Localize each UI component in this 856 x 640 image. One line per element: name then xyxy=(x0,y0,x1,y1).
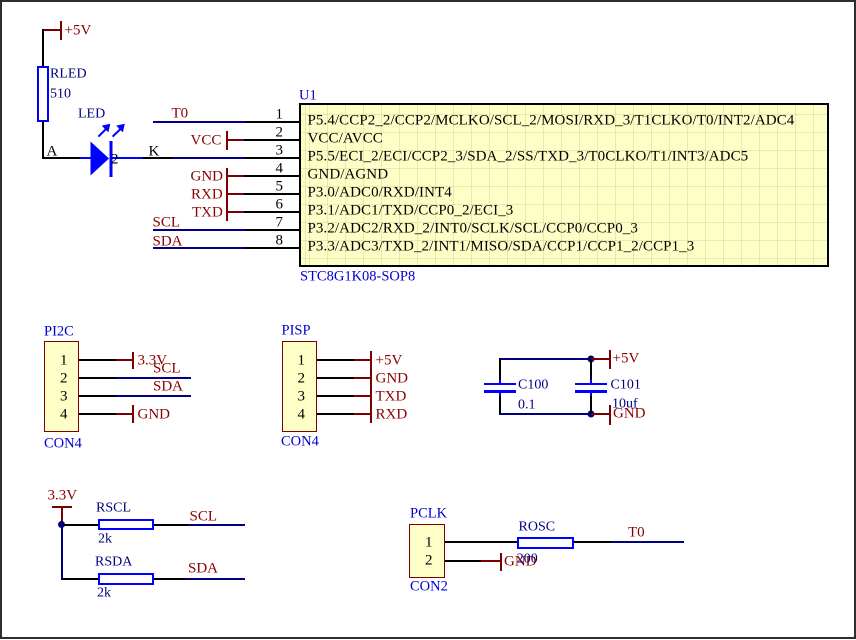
node A label xyxy=(47,144,58,159)
power port VCC bar xyxy=(226,131,228,150)
RSDA right lead xyxy=(154,578,185,580)
RLED value 510 xyxy=(50,88,71,102)
U1 pin 3 lead xyxy=(245,157,299,159)
PCLK value CON2 xyxy=(410,580,448,595)
wire net SCL to pin7 xyxy=(153,229,246,231)
PI2C pin 1 lead xyxy=(79,359,116,361)
LED arrow 1 xyxy=(98,130,105,137)
GND text xyxy=(504,554,537,569)
port TXD stub xyxy=(354,395,370,397)
GND bar xyxy=(609,405,611,425)
power port GND at pin4: stub xyxy=(227,175,244,177)
port text RXD xyxy=(191,187,223,202)
node K label xyxy=(149,144,160,159)
capacitor C100 top blue stub xyxy=(499,379,501,383)
net label SCL xyxy=(190,510,218,525)
power port GND at PI2C pin4: stub xyxy=(116,413,133,415)
PCLK designator xyxy=(410,507,447,522)
capacitor C100 top plate xyxy=(484,383,516,386)
RSCL designator xyxy=(96,501,131,515)
PI2C pin 4 lead xyxy=(79,413,116,415)
power port 3.3V bar xyxy=(132,352,134,370)
ROSC right lead xyxy=(574,541,611,543)
LED designator text xyxy=(78,108,105,122)
U1 pin 2 lead xyxy=(244,139,299,141)
net label SDA xyxy=(153,379,183,394)
PI2C pin 2 lead xyxy=(79,377,116,379)
LED anode lead (blue) xyxy=(80,157,91,159)
U1 value STC8G1K08-SOP8 xyxy=(300,270,415,285)
U1 pin 5 lead xyxy=(244,193,299,195)
wire net SDA at PI2C pin3 xyxy=(116,395,191,397)
ROSC value 200 (overlapping GND label) xyxy=(517,552,538,566)
net label SCL xyxy=(153,362,181,377)
capacitor C101 top plate xyxy=(575,383,607,386)
decoupling caps: bottom wire xyxy=(499,413,591,415)
ROSC designator xyxy=(519,520,556,534)
capacitor C101 top blue stub xyxy=(590,379,592,383)
wire net SCL at PI2C pin2 xyxy=(116,377,191,379)
junction dot at C caps +5V xyxy=(588,356,595,363)
power port 3.3V text xyxy=(138,353,168,368)
RSCL right lead xyxy=(154,524,188,526)
LED arrow 2 xyxy=(113,130,120,137)
power port +5V text xyxy=(65,24,92,39)
net label T0 xyxy=(172,107,189,122)
capacitor C100 bottom blue stub xyxy=(499,393,501,397)
U1 pin 7 lead xyxy=(245,229,299,231)
PCLK pin 1 lead xyxy=(445,541,518,543)
PCLK pin numbers xyxy=(425,536,433,551)
power port +5V stub xyxy=(43,29,60,31)
port RXD stub xyxy=(354,413,370,415)
capacitor C101 top lead xyxy=(590,359,592,379)
wire junction to RSCL xyxy=(61,524,98,526)
port text TXD xyxy=(192,205,223,220)
PISP pin 3 lead xyxy=(317,395,354,397)
U1 pin 6 lead xyxy=(244,211,299,213)
capacitor C100 bottom plate xyxy=(484,390,516,393)
C100 value 0.1 xyxy=(518,399,536,413)
RSDA value 2k xyxy=(97,587,111,601)
resistor RSDA body xyxy=(98,573,154,585)
port text +5V xyxy=(376,353,403,368)
LED pin2 number xyxy=(111,153,119,168)
wire net SDA to pin8 xyxy=(153,247,246,249)
wire net T0 bottom xyxy=(611,541,684,543)
U1 designator xyxy=(299,89,317,104)
port text TXD xyxy=(376,389,407,404)
net label SDA xyxy=(153,234,183,249)
capacitor C101 bottom blue stub xyxy=(590,393,592,397)
PCLK pin 2 lead xyxy=(445,560,481,562)
capacitor C101 bottom lead xyxy=(590,396,592,414)
power port TXD stub at pin6 xyxy=(227,211,244,213)
wire +5V to RLED xyxy=(42,29,44,67)
PISP pin 4 lead xyxy=(317,413,354,415)
GND text xyxy=(613,406,646,421)
PI2C pin 3 lead xyxy=(79,395,116,397)
wire LED K to pin3 xyxy=(172,157,245,159)
C101 value 10uf xyxy=(612,398,638,412)
U1 pin row texts xyxy=(308,113,795,128)
PISP designator xyxy=(282,324,311,339)
3.3V horizontal bar xyxy=(52,506,72,508)
power port 3.3V above RSCL: text xyxy=(48,489,78,504)
wire net T0 to pin1 xyxy=(153,121,246,123)
capacitor C101 bottom plate xyxy=(575,390,607,393)
net label SCL xyxy=(153,215,181,230)
wire 3.3V junction down to RSDA row xyxy=(61,524,63,579)
wire cathode black segment xyxy=(143,157,172,159)
U1 pin 1 lead xyxy=(245,121,299,123)
PISP pin 2 lead xyxy=(317,377,354,379)
shared port bar PISP xyxy=(370,351,372,423)
LED cathode bar xyxy=(110,141,113,177)
power port GND text xyxy=(138,407,171,422)
power port GND at PCLK: stub xyxy=(481,560,500,562)
+5V bar xyxy=(609,350,611,369)
IC U1 body (STC8G1K08-SOP8) xyxy=(299,103,829,267)
wire stem to junction xyxy=(61,521,63,526)
port GND stub xyxy=(354,377,370,379)
connector PISP body xyxy=(282,341,318,432)
+5V text xyxy=(613,352,640,367)
net label T0 xyxy=(628,525,645,540)
power port RXD stub at pin5 xyxy=(227,193,244,195)
3.3V stem xyxy=(61,507,63,523)
junction dot at 3.3V node xyxy=(58,521,65,528)
PISP value CON4 xyxy=(281,435,319,450)
U1 pin 8 lead xyxy=(245,247,299,249)
C101 designator xyxy=(611,379,641,393)
power port +5V top-left: bar xyxy=(60,21,62,40)
U1 pin numbers 1-8 xyxy=(276,107,284,122)
junction dot at C caps GND xyxy=(588,411,595,418)
C100 designator xyxy=(518,379,548,393)
LED triangle xyxy=(91,142,110,176)
U1 pin 4 lead xyxy=(244,175,299,177)
PI2C designator xyxy=(44,325,74,340)
power port VCC text xyxy=(191,133,222,148)
decoupling caps: top wire xyxy=(499,358,591,360)
GND bar xyxy=(500,553,502,571)
PI2C value CON4 xyxy=(44,437,82,452)
power port 3.3V at PI2C pin1: stub xyxy=(116,359,133,361)
wire net SCL bottom xyxy=(188,524,245,526)
connector PI2C body xyxy=(44,341,80,432)
capacitor C100 bottom lead xyxy=(499,396,501,414)
wire RLED to LED anode (vertical) xyxy=(42,121,44,159)
power port GND bar xyxy=(132,405,134,423)
PISP pin 1 lead xyxy=(317,359,354,361)
wire net SDA bottom xyxy=(185,578,246,580)
PI2C pin numbers xyxy=(60,354,68,369)
shared power bar pins 4-6 xyxy=(226,168,228,221)
resistor RLED body xyxy=(37,66,49,122)
PISP pin numbers xyxy=(298,354,306,369)
port +5V stub xyxy=(354,359,370,361)
port text GND xyxy=(376,371,409,386)
port text GND xyxy=(191,169,224,184)
RSCL value 2k xyxy=(98,533,112,547)
connector PCLK body xyxy=(409,524,445,578)
net label SDA xyxy=(188,562,218,577)
LED cathode lead (blue) xyxy=(112,157,143,159)
resistor ROSC body xyxy=(517,537,574,549)
port text RXD xyxy=(376,407,408,422)
power port VCC at pin2: stub xyxy=(227,139,244,141)
power port +5V at caps: stub xyxy=(591,358,609,360)
power port GND at caps: stub xyxy=(591,413,609,415)
wire to RSDA xyxy=(61,578,98,580)
resistor RSCL body xyxy=(98,519,154,531)
RLED designator xyxy=(50,67,87,81)
RSDA designator xyxy=(95,556,132,570)
wire RLED to LED anode (horizontal) xyxy=(42,157,80,159)
capacitor C100 top lead xyxy=(499,358,501,379)
